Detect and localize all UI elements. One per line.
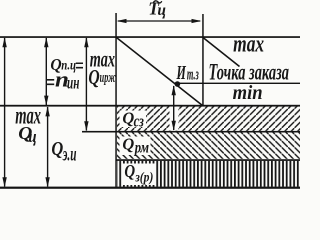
svg-text:ц: ц: [157, 2, 166, 19]
И_т.з arrow (order level down to Q_сз bottom): [170, 107, 179, 131]
svg-text:з(р): з(р): [134, 170, 153, 185]
dimension arrow max Q_ц (full height, left): [2, 37, 6, 187]
svg-text:min: min: [233, 83, 263, 105]
svg-text:рм: рм: [133, 139, 149, 157]
label Q_э.и: [51, 138, 76, 166]
dimension arrow max Q_ирж (max line to Q_сз bottom): [84, 37, 88, 131]
Q_сз bottom boundary line: [82, 131, 300, 133]
band Q_рм (\\\ hatch): [117, 132, 300, 158]
svg-text:т.з: т.з: [187, 64, 199, 83]
svg-text:Q: Q: [88, 66, 99, 89]
svg-text:Точка заказа: Точка заказа: [208, 60, 289, 85]
svg-text:п: п: [55, 68, 69, 92]
consumption diagonal cycle 1: [116, 37, 203, 106]
consumption diagonal cycle 2: [203, 38, 240, 67]
label И_т.з: [176, 62, 199, 84]
svg-text:сз: сз: [134, 113, 144, 131]
svg-text:ин: ин: [67, 74, 79, 93]
order point dot: [175, 81, 181, 87]
label max Q_ирж: [88, 47, 116, 88]
svg-text:=: =: [46, 70, 55, 95]
cycle start vertical: [115, 13, 117, 188]
svg-text:Q: Q: [122, 108, 134, 127]
dimension arrow T_ц (cycle length): [117, 19, 202, 23]
svg-text:Q: Q: [51, 138, 63, 160]
svg-text:Q: Q: [122, 134, 134, 153]
dimension arrow Q_э.и (min line to bottom): [45, 106, 49, 187]
label max Q_ц: [15, 101, 41, 146]
band Q_з(р) (vertical ||| hatch): [117, 161, 300, 187]
band Q_сз (safety stock, /// hatch): [117, 106, 300, 131]
order point level line: [177, 83, 300, 84]
min level line: [0, 105, 300, 107]
restock vertical: [202, 14, 204, 106]
Q_рм bottom boundary line: [116, 159, 300, 161]
label box Q_з(р): [122, 162, 156, 185]
svg-text:э.и: э.и: [62, 142, 76, 165]
label T_ц: [148, 0, 166, 19]
svg-text:ирж: ирж: [100, 68, 116, 85]
label Q_п.ц = п_ин: [46, 54, 84, 95]
svg-text:Q: Q: [124, 162, 135, 181]
label box Q_сз: [120, 108, 147, 131]
dimension arrow Q_п.ц (max line to min line): [44, 37, 48, 105]
max level line (top): [0, 36, 300, 38]
bottom boundary line: [0, 187, 300, 189]
svg-text:ц: ц: [28, 128, 37, 146]
label box Q_рм: [120, 134, 151, 157]
svg-text:И: И: [176, 62, 187, 84]
svg-text:max: max: [233, 30, 264, 58]
